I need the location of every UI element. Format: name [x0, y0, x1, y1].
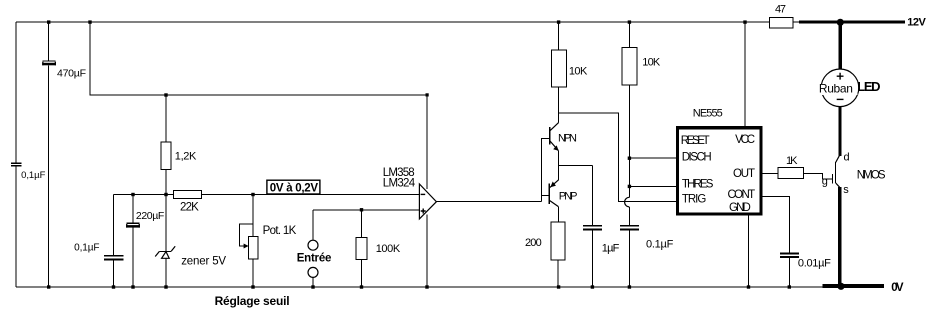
svg-text:Pot. 1K: Pot. 1K — [263, 225, 297, 237]
svg-text:Ruban: Ruban — [819, 82, 853, 96]
svg-text:0.1µF: 0.1µF — [646, 239, 674, 251]
svg-text:1µF: 1µF — [602, 243, 620, 255]
svg-text:200: 200 — [525, 237, 542, 249]
svg-text:zener 5V: zener 5V — [181, 255, 226, 267]
svg-text:THRES: THRES — [682, 179, 714, 191]
svg-text:10K: 10K — [569, 66, 588, 78]
svg-text:CONT: CONT — [728, 189, 756, 201]
svg-text:NMOS: NMOS — [857, 169, 886, 181]
svg-text:47: 47 — [775, 4, 786, 16]
svg-text:0V: 0V — [891, 282, 904, 294]
svg-text:22K: 22K — [180, 202, 199, 214]
svg-text:RESET: RESET — [681, 135, 710, 147]
svg-text:TRIG: TRIG — [682, 194, 706, 206]
svg-text:DISCH: DISCH — [682, 152, 712, 164]
svg-text:OUT: OUT — [733, 168, 755, 180]
svg-text:NE555: NE555 — [693, 108, 723, 120]
svg-text:1K: 1K — [786, 155, 798, 167]
svg-text:LED: LED — [857, 79, 880, 94]
svg-text:0,1µF: 0,1µF — [74, 243, 99, 254]
svg-text:PNP: PNP — [559, 190, 578, 202]
svg-text:12V: 12V — [907, 16, 926, 28]
svg-text:GND: GND — [729, 202, 751, 214]
svg-text:Réglage seuil: Réglage seuil — [215, 294, 290, 308]
svg-text:g: g — [822, 176, 828, 188]
svg-text:1,2K: 1,2K — [175, 150, 197, 162]
svg-text:LM324: LM324 — [383, 178, 416, 190]
svg-text:0,1µF: 0,1µF — [21, 170, 45, 181]
svg-text:Entrée: Entrée — [297, 253, 332, 265]
svg-text:VCC: VCC — [735, 134, 755, 146]
svg-text:10K: 10K — [642, 57, 661, 69]
svg-text:0V à 0,2V: 0V à 0,2V — [270, 183, 319, 195]
svg-text:s: s — [843, 184, 849, 196]
svg-text:NPN: NPN — [558, 132, 577, 144]
svg-text:0.01µF: 0.01µF — [798, 258, 831, 270]
svg-text:470µF: 470µF — [57, 68, 86, 80]
svg-text:100K: 100K — [376, 243, 401, 255]
svg-text:d: d — [844, 152, 850, 164]
svg-text:220µF: 220µF — [136, 210, 164, 222]
